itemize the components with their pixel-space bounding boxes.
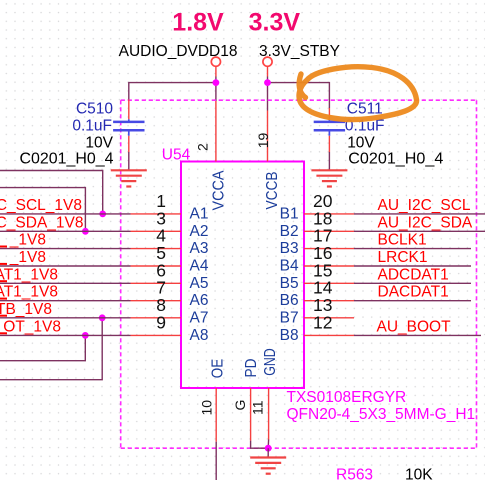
svg-text:A7: A7 [190, 309, 209, 326]
wire net _1V8 row A3 [0, 248, 131, 250]
wire net _1V8 row A4 [0, 265, 131, 267]
svg-text:B5: B5 [280, 275, 299, 292]
svg-text:C0201_H0_4: C0201_H0_4 [20, 150, 114, 167]
svg-text:OE: OE [209, 359, 226, 379]
wire C510 to ground [128, 152, 130, 170]
ground under C510 [111, 170, 147, 186]
svg-text:VCCB: VCCB [264, 172, 281, 210]
pin 3 A2 stub [131, 208, 182, 231]
annotation orange circle around C511 [299, 67, 417, 120]
pin 14 B6 stub [304, 278, 354, 301]
pin 17 B3 stub [304, 226, 354, 249]
svg-text:10V: 10V [347, 134, 375, 151]
svg-text:11: 11 [249, 400, 265, 415]
wire net AU_I2C_SDA row B2 [354, 230, 485, 232]
svg-text:BCLK1: BCLK1 [378, 232, 427, 249]
svg-text:12: 12 [313, 312, 332, 332]
pin 2 VCCA stub [215, 101, 217, 162]
terminal 3.3V_STBY [263, 57, 272, 66]
svg-text:C510: C510 [76, 101, 113, 118]
wire route in to A1 (from left, upper) [0, 171, 103, 214]
svg-text:0.1uF: 0.1uF [72, 118, 112, 135]
pin 13 B7 stub [304, 295, 354, 318]
pin 7 A6 stub [131, 278, 182, 301]
svg-text:R563: R563 [336, 467, 373, 480]
svg-text:A8: A8 [190, 327, 209, 344]
pin 12 B8 stub [304, 312, 354, 335]
svg-text:AU_I2C_SCL: AU_I2C_SCL [378, 197, 471, 214]
pin 1 A1 stub [131, 191, 182, 214]
net label OT_1V8 (A8) [0, 318, 61, 335]
op IC U54 body [181, 162, 304, 389]
svg-text:_1V8: _1V8 [9, 249, 46, 266]
svg-text:B3: B3 [280, 240, 299, 257]
junction dot A1 [99, 211, 106, 218]
wire net AU_BOOT row B8 [354, 334, 481, 336]
ground under C511 [311, 170, 347, 186]
pin 11 GND stub [268, 388, 270, 440]
svg-text:G: G [232, 400, 248, 411]
wire net AT1_1V8 row A5 [0, 282, 131, 284]
svg-text:2: 2 [195, 143, 211, 151]
pin 19 VCCB stub [267, 111, 269, 162]
svg-text:B4: B4 [280, 258, 299, 275]
ground bottom [250, 458, 286, 474]
pin 16 B4 stub [304, 243, 354, 266]
svg-text:A6: A6 [190, 292, 209, 309]
svg-text:10: 10 [198, 400, 214, 416]
capacitor C511 [314, 108, 345, 152]
pin 4 A3 stub [131, 226, 182, 249]
junction dot A2 [82, 228, 89, 235]
junction dot 1.8V [213, 79, 220, 86]
svg-text:ADCDAT1: ADCDAT1 [378, 266, 449, 283]
net label TB_1V8 (A7) [0, 301, 52, 318]
wire OE down [215, 442, 217, 480]
wire route out of A8 (to left, lower) [0, 335, 85, 360]
pin G PD stub [250, 388, 252, 441]
junction dot A8 [82, 332, 89, 339]
wire GND pin to junction [267, 440, 269, 449]
svg-text:A4: A4 [190, 258, 209, 275]
svg-text:LRCK1: LRCK1 [378, 249, 428, 266]
net label AT1_1V8 (A6) [0, 284, 58, 301]
junction dot A7 [99, 314, 106, 321]
net label AT1_1V8 (A5) [0, 266, 58, 283]
net label _1V8 (A4) [0, 249, 46, 266]
pin 20 B1 stub [304, 191, 354, 214]
svg-text:TXS0108ERGYR: TXS0108ERGYR [287, 389, 407, 406]
pin 10 OE stub [215, 388, 217, 442]
junction dot 3.3V [264, 79, 271, 86]
wire route in to A2 (from left, upper) [0, 188, 85, 232]
svg-text:A1: A1 [190, 205, 209, 222]
pin 6 A5 stub [131, 260, 182, 283]
wire terminal to junction (3.3V) [267, 66, 269, 82]
svg-text:AU_I2C_SDA: AU_I2C_SDA [378, 214, 473, 231]
wire 1.8V junction down to VCCA pin [215, 83, 217, 101]
svg-text:B6: B6 [280, 292, 299, 309]
svg-text:B7: B7 [280, 309, 299, 326]
wire net OT_1V8 row A8 [0, 334, 131, 336]
svg-text:GND: GND [262, 348, 279, 376]
junction dot GND [265, 445, 272, 452]
wire net C_SCL_1V8 row A1 [0, 213, 131, 215]
wire net AT1_1V8 row A6 [0, 300, 131, 302]
svg-text:3.3V: 3.3V [249, 9, 301, 37]
dashed domain boundary box [121, 100, 477, 448]
wire net TB_1V8 row A7 [0, 317, 131, 319]
svg-text:A2: A2 [190, 223, 209, 240]
svg-text:AU_BOOT: AU_BOOT [377, 318, 452, 335]
svg-text:OT_1V8: OT_1V8 [3, 318, 61, 335]
terminal AUDIO_DVDD18 [211, 57, 220, 66]
wire 3.3V junction down to VCCB pin [267, 83, 269, 111]
svg-text:B2: B2 [280, 223, 299, 240]
wire net BCLK1 row B3 [354, 248, 471, 250]
pin 15 B5 stub [304, 260, 354, 283]
svg-text:B8: B8 [280, 327, 299, 344]
svg-text:AT1_1V8: AT1_1V8 [0, 266, 58, 283]
wire net ADCDAT1 row B5 [354, 282, 471, 284]
capacitor C510 [113, 100, 144, 153]
svg-text:QFN20-4_5X3_5MM-G_H1: QFN20-4_5X3_5MM-G_H1 [287, 406, 476, 423]
svg-text:PD: PD [243, 359, 260, 378]
wire terminal to junction (1.8V) [215, 66, 217, 82]
svg-text:1.8V: 1.8V [172, 9, 224, 37]
wire net DACDAT1 row B6 [354, 300, 471, 302]
svg-text:19: 19 [255, 133, 271, 149]
svg-text:TB_1V8: TB_1V8 [0, 301, 52, 318]
svg-text:9: 9 [156, 312, 166, 332]
svg-text:3.3V_STBY: 3.3V_STBY [259, 43, 340, 60]
svg-text:AUDIO_DVDD18: AUDIO_DVDD18 [119, 43, 238, 60]
svg-text:10K: 10K [405, 467, 433, 480]
wire 1.8V junction to C510 [129, 83, 216, 100]
svg-text:_1V8: _1V8 [9, 232, 46, 249]
wire route out of A7 (to left, lower) [0, 318, 102, 380]
svg-text:A3: A3 [190, 240, 209, 257]
svg-text:DACDAT1: DACDAT1 [378, 284, 449, 301]
wire net C_SDA_1V8 row A2 [0, 230, 131, 232]
svg-text:C_SDA_1V8: C_SDA_1V8 [0, 214, 84, 231]
svg-text:C0201_H0_4: C0201_H0_4 [348, 150, 443, 167]
wire C511 to ground [328, 152, 330, 170]
wire net LRCK1 row B4 [354, 265, 471, 267]
svg-text:A5: A5 [190, 275, 209, 292]
net label _1V8 (A3) [0, 232, 46, 249]
wire net AU_I2C_SCL row B1 [354, 213, 485, 215]
pin 18 B2 stub [304, 208, 354, 231]
wire PD to GND junction [251, 441, 269, 449]
svg-text:VCCA: VCCA [211, 170, 228, 211]
wire junction to ground [267, 448, 269, 457]
svg-text:10V: 10V [85, 134, 113, 151]
pin 8 A7 stub [131, 295, 182, 318]
pin 9 A8 stub [131, 312, 182, 335]
svg-text:B1: B1 [280, 205, 299, 222]
svg-text:U54: U54 [162, 147, 191, 164]
svg-text:C_SCL_1V8: C_SCL_1V8 [0, 197, 82, 214]
svg-text:AT1_1V8: AT1_1V8 [0, 284, 58, 301]
pin 5 A4 stub [131, 243, 182, 266]
wire 3.3V junction to C511 [268, 83, 330, 108]
